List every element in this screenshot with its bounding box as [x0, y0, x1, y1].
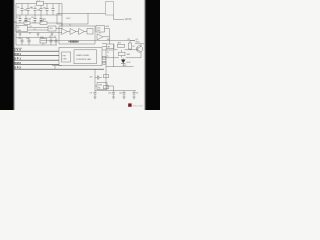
value label 4K7: [107, 39, 110, 41]
capacitor C20: [133, 91, 139, 95]
phy block: [62, 52, 71, 62]
svg-text:C1: C1: [17, 7, 19, 9]
capacitor C19: [119, 91, 126, 95]
wire crystal: [95, 69, 114, 92]
svg-text:Hz: Hz: [98, 87, 100, 89]
net label 5V0: [14, 48, 21, 52]
svg-text:C10: C10: [108, 93, 111, 95]
svg-text:OSC: OSC: [66, 18, 71, 20]
wire bus5: [14, 68, 105, 70]
ground G6: [123, 94, 126, 99]
svg-text:dzsc.com: dzsc.com: [132, 105, 143, 108]
wire osc stubs: [62, 24, 70, 26]
svg-text:CONTROLLER: CONTROLLER: [76, 59, 91, 61]
svg-text:4R7: 4R7: [118, 43, 121, 45]
transistor Q1: [136, 39, 143, 52]
net label DP2: [14, 66, 21, 70]
resistor R3: [40, 37, 47, 45]
capacitor C18: [108, 91, 115, 95]
net label DM1: [14, 52, 21, 56]
svg-text:C7: C7: [16, 17, 18, 19]
svg-text:C5: C5: [30, 26, 32, 28]
right black border bar: [145, 0, 167, 114]
wire IC ground drop: [52, 66, 62, 70]
pin header boxes right of IC: [102, 49, 108, 89]
value label 48M: [106, 26, 110, 28]
svg-text:0.1u: 0.1u: [33, 22, 37, 24]
svg-text:10u: 10u: [26, 38, 29, 40]
svg-text:PHY: PHY: [63, 56, 68, 58]
capacitor C13: [50, 38, 53, 46]
filter block: [85, 29, 94, 35]
wire emitter row: [114, 52, 142, 58]
svg-text:8R: 8R: [108, 47, 111, 49]
resistor R1: [24, 20, 30, 24]
connector box top right: [106, 2, 114, 16]
svg-text:12M: 12M: [98, 85, 102, 87]
capacitor C1: [17, 7, 27, 11]
LED D1: [121, 58, 131, 67]
svg-text:USB2.0 HUB: USB2.0 HUB: [76, 55, 89, 57]
wire hookup row: [16, 33, 57, 45]
value label 0.1u: [33, 22, 37, 24]
net label DP1: [14, 57, 21, 61]
svg-text:[ACK]: [ACK]: [125, 18, 132, 21]
capacitor C6: [52, 9, 55, 11]
svg-text:1K: 1K: [132, 46, 135, 48]
connector J1 box: [16, 26, 28, 32]
value label C6 C7: [49, 36, 56, 38]
net label DM2: [14, 61, 21, 65]
wire ack: [114, 15, 125, 20]
svg-text:104: 104: [18, 38, 21, 40]
inductor L1: [37, 0, 44, 5]
wire between boxes: [28, 23, 63, 30]
wire mid rail: [16, 14, 62, 16]
ground G3: [51, 33, 54, 37]
value label X1: [29, 33, 31, 35]
hub core block: [74, 50, 97, 64]
capacitor C9: [31, 15, 37, 23]
svg-text:C9: C9: [31, 17, 33, 19]
regulator U2 box: [48, 26, 56, 31]
svg-text:C7: C7: [54, 36, 56, 38]
wire transistor top: [41, 41, 145, 47]
svg-text:X1: X1: [29, 33, 31, 35]
resistor R4: [118, 43, 125, 48]
op-amp A2: [68, 29, 77, 35]
svg-text:CLK: CLK: [97, 27, 101, 29]
svg-text:104: 104: [24, 9, 27, 11]
resistor R2: [40, 20, 47, 24]
capacitor C5: [46, 9, 49, 11]
hub controller box U1: [59, 48, 102, 66]
oscillator block box: [57, 14, 88, 25]
crystal Y1 box: [97, 83, 107, 90]
capacitor C12: [26, 38, 31, 46]
watermark logo: [128, 103, 131, 106]
wire bus3: [14, 59, 60, 61]
wire top rail: [16, 4, 62, 27]
capacitor C8: [25, 15, 31, 23]
amplifier chain box: [59, 26, 95, 44]
svg-text:C11: C11: [119, 93, 122, 95]
wire bus4: [14, 64, 60, 66]
watermark text: [132, 105, 143, 108]
capacitor C11: [18, 38, 24, 46]
svg-text:10R: 10R: [127, 54, 131, 56]
svg-text:104: 104: [37, 9, 40, 11]
value label R8: [128, 39, 130, 41]
svg-text:48M: 48M: [106, 26, 110, 28]
svg-text:0.1: 0.1: [34, 29, 37, 31]
capacitor C4: [40, 7, 46, 10]
svg-text:10u: 10u: [43, 7, 46, 9]
ground G7: [133, 94, 136, 99]
wire bus1: [14, 50, 60, 52]
wire feedback top: [88, 13, 106, 15]
svg-text:LED: LED: [127, 62, 131, 64]
svg-text:C3: C3: [30, 7, 32, 9]
svg-text:6R8: 6R8: [41, 20, 44, 22]
svg-text:LDO: LDO: [49, 28, 53, 30]
svg-text:D-: D-: [107, 56, 109, 58]
capacitor C2: [27, 7, 33, 10]
ground G1: [19, 33, 22, 37]
capacitor C14: [55, 38, 58, 46]
op-amp A3: [76, 29, 85, 35]
node labels USB input: [15, 48, 23, 50]
svg-text:C9: C9: [90, 93, 92, 95]
wire vertical drops row1: [16, 4, 59, 16]
pullup box right: [107, 44, 115, 49]
resistor R6: [119, 50, 131, 58]
capacitor C10: [40, 15, 46, 23]
wire bottom rail: [95, 90, 136, 92]
capacitor C3: [30, 7, 40, 11]
ground G2: [37, 33, 40, 37]
IC label HS8836A: [69, 40, 80, 44]
svg-text:5V: 5V: [136, 93, 139, 95]
wire output rail: [106, 65, 134, 67]
op-amp A1: [62, 29, 68, 35]
clock block box: [96, 26, 105, 33]
value label C5: [30, 26, 37, 31]
wire third rail: [16, 23, 62, 33]
wire lower rail: [16, 15, 62, 23]
capacitor C17: [90, 93, 97, 95]
left black border bar: [0, 0, 14, 114]
label ACK box: [125, 18, 132, 21]
wire base row: [114, 44, 138, 67]
resistor R5: [129, 41, 136, 50]
ground G5: [112, 94, 115, 99]
capacitor C7: [16, 15, 22, 23]
svg-text:22n: 22n: [90, 77, 93, 79]
capacitor C16: [90, 76, 103, 80]
wire clk out stubs: [103, 29, 110, 45]
svg-text:22R: 22R: [24, 20, 28, 22]
svg-text:8550: 8550: [136, 41, 140, 43]
IC right pins: [102, 44, 114, 63]
svg-text:D+: D+: [107, 52, 109, 54]
svg-text:C6: C6: [49, 36, 51, 38]
net label 5V input: [14, 22, 17, 24]
ground G4: [94, 94, 97, 99]
wire bus2: [14, 55, 60, 57]
svg-text:USB: USB: [63, 59, 68, 61]
op-amp A4: [97, 32, 103, 40]
